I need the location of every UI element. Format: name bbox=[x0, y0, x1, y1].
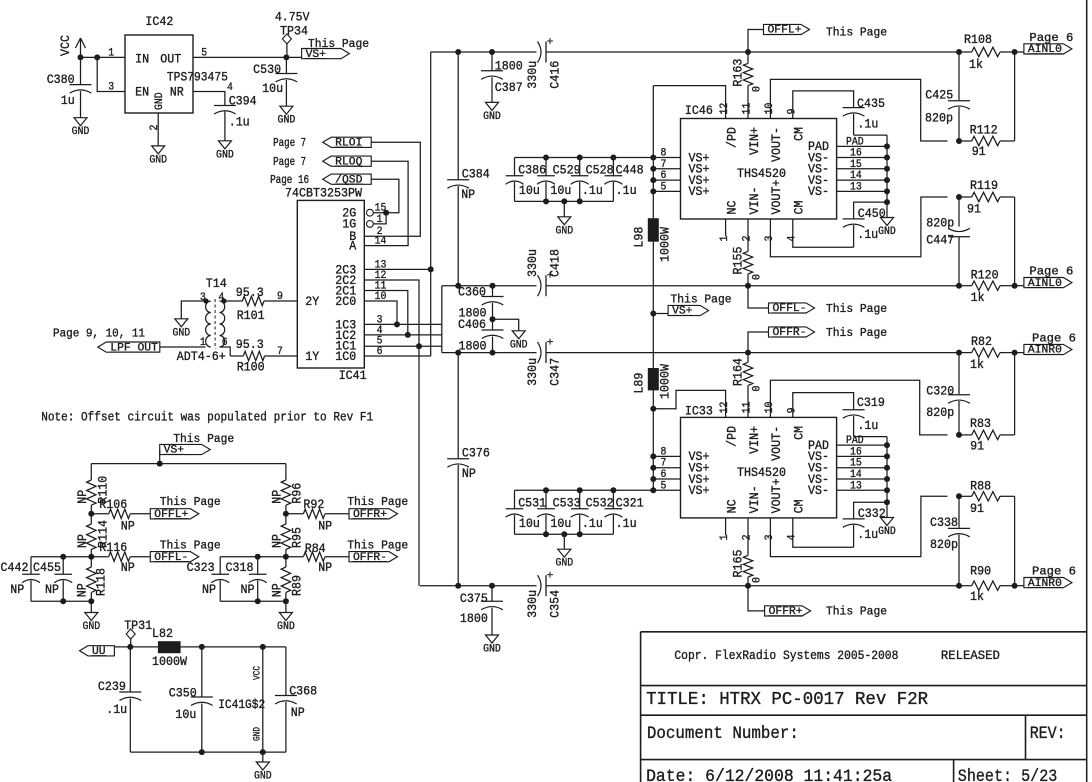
junction PAD bus 3 bbox=[884, 177, 890, 183]
svg-text:NP: NP bbox=[45, 582, 59, 597]
junction C406 rail3 bbox=[490, 350, 496, 356]
svg-text:.1u: .1u bbox=[857, 227, 878, 242]
svg-text:C350: C350 bbox=[169, 686, 197, 701]
pin number 4b bbox=[377, 325, 383, 337]
wire VS+ bus lower bbox=[652, 390, 654, 490]
capacitor C320 bbox=[926, 353, 970, 435]
wire pin5 1C1 bbox=[364, 345, 442, 347]
capacitor C455 bbox=[33, 557, 72, 602]
capacitor C416 330u bbox=[525, 38, 563, 89]
pin number IC33-11 bbox=[742, 401, 754, 413]
svg-text:Note: Offset circuit was popul: Note: Offset circuit was populated prior… bbox=[41, 410, 373, 425]
svg-text:PAD: PAD bbox=[846, 435, 864, 447]
junction bank2 C321 top bbox=[610, 487, 616, 493]
pin number T14-1 bbox=[200, 337, 206, 349]
svg-text:OFFR+: OFFR+ bbox=[353, 509, 387, 521]
svg-text:Page 6: Page 6 bbox=[1029, 265, 1073, 279]
wire IC33 pin10 route bbox=[770, 380, 947, 435]
wire R119-R120 link bbox=[1014, 197, 1016, 286]
svg-text:THS4520: THS4520 bbox=[737, 465, 786, 480]
svg-text:L98: L98 bbox=[631, 227, 646, 248]
svg-text:RLOQ: RLOQ bbox=[335, 156, 363, 168]
svg-text:VS+: VS+ bbox=[689, 483, 710, 498]
resistor R118 bbox=[74, 557, 108, 602]
svg-text:/PD: /PD bbox=[724, 127, 739, 148]
net flag VS+ top bbox=[302, 37, 369, 61]
pin number 4 IC42 bbox=[227, 82, 233, 94]
svg-text:.1u: .1u bbox=[229, 114, 250, 129]
svg-text:C406: C406 bbox=[458, 317, 486, 332]
svg-text:R118: R118 bbox=[94, 568, 109, 596]
net flag AINR0 b bbox=[1015, 565, 1076, 590]
resistor R110 bbox=[75, 464, 110, 514]
svg-text:4.75V: 4.75V bbox=[275, 9, 310, 24]
svg-text:15: 15 bbox=[375, 203, 387, 215]
junction PAD33 bus 5 bbox=[884, 499, 890, 505]
svg-text:GND: GND bbox=[253, 727, 264, 741]
svg-text:GND: GND bbox=[555, 558, 573, 570]
svg-text:.1u: .1u bbox=[582, 516, 603, 531]
svg-text:GND: GND bbox=[278, 115, 296, 127]
svg-text:VS+: VS+ bbox=[164, 445, 184, 457]
junction PAD33 bus 4 bbox=[884, 487, 890, 493]
ground below C380 bbox=[72, 118, 90, 139]
svg-text:1C0: 1C0 bbox=[335, 349, 356, 364]
junction IC33 pin5 bbox=[650, 487, 656, 493]
junction VS+ flag node bbox=[650, 311, 656, 317]
svg-text:VCC: VCC bbox=[253, 666, 264, 680]
junction PAD bus 2 bbox=[884, 166, 890, 172]
capacitor C394 bbox=[214, 94, 257, 141]
wire IC46 VS- pin 16 bbox=[837, 157, 887, 159]
wire C450 top bbox=[854, 202, 887, 218]
junction R164 rail3 bbox=[745, 350, 751, 356]
junction C318 top bbox=[255, 554, 261, 560]
svg-text:10u: 10u bbox=[550, 183, 571, 198]
resistor R164 bbox=[731, 353, 764, 418]
svg-text:R83: R83 bbox=[970, 416, 991, 431]
wire bank4 top rail bbox=[220, 556, 286, 558]
junction C350 top bbox=[199, 644, 205, 650]
svg-text:1: 1 bbox=[377, 214, 383, 226]
wire IC46 PAD bus bbox=[886, 135, 888, 217]
svg-text:.1u: .1u bbox=[582, 183, 603, 198]
ground IC46 PAD bbox=[878, 218, 896, 239]
junction TP34 node bbox=[283, 54, 289, 60]
svg-text:Copr. FlexRadio Systems 2005-2: Copr. FlexRadio Systems 2005-2008 bbox=[674, 648, 898, 663]
ground bank2 bbox=[555, 534, 573, 569]
svg-text:820p: 820p bbox=[930, 537, 958, 552]
pin number IC33-7 bbox=[661, 458, 667, 470]
svg-text:This Page: This Page bbox=[347, 539, 408, 553]
svg-text:R155: R155 bbox=[731, 247, 746, 275]
junction R118 bottom bbox=[88, 598, 94, 604]
wire mid gnd jog bbox=[493, 319, 519, 331]
svg-text:TP31: TP31 bbox=[124, 618, 152, 633]
svg-text:NP: NP bbox=[269, 490, 284, 504]
wire IC42 pin1 input bbox=[81, 56, 126, 58]
resistor R90 bbox=[959, 564, 1015, 605]
svg-text:C435: C435 bbox=[857, 96, 885, 111]
resistor R100 bbox=[230, 337, 297, 375]
net flag OFFR- bbox=[748, 326, 887, 353]
wire IC33 pin4 route bbox=[793, 518, 854, 547]
resistor R120 bbox=[959, 268, 1015, 306]
junction IC33 PD tie bbox=[650, 406, 656, 412]
svg-text:1800: 1800 bbox=[459, 339, 487, 354]
wire rail OFFR- mid bbox=[442, 352, 959, 354]
pin number 12 bbox=[375, 270, 387, 282]
power symbol VCC bbox=[58, 35, 86, 58]
svg-text:330u: 330u bbox=[525, 249, 540, 277]
junction R82 left bbox=[956, 350, 962, 356]
resistor R112 bbox=[959, 122, 1015, 159]
svg-text:330u: 330u bbox=[525, 358, 540, 386]
wire IC41 pin1 tie bbox=[373, 213, 386, 224]
title doc number bbox=[647, 724, 799, 744]
net flag VS+ offset bbox=[160, 432, 235, 464]
svg-text:C394: C394 bbox=[229, 94, 257, 109]
svg-text:16: 16 bbox=[850, 446, 862, 458]
svg-text:GND: GND bbox=[483, 111, 501, 123]
wire bank3 bottom rail bbox=[31, 600, 91, 602]
capacitor C418 330u bbox=[525, 249, 563, 296]
svg-text:NP: NP bbox=[75, 534, 90, 548]
svg-text:1k: 1k bbox=[969, 57, 983, 72]
svg-text:OFFL-: OFFL- bbox=[773, 303, 807, 315]
capacitor C528 bbox=[571, 158, 614, 202]
svg-text:NP: NP bbox=[462, 466, 476, 481]
ground below C387 bbox=[483, 102, 501, 123]
svg-text:This Page: This Page bbox=[173, 432, 234, 446]
svg-text:R90: R90 bbox=[970, 564, 991, 579]
net flag AINL0 b bbox=[1015, 265, 1074, 290]
svg-text:/PD: /PD bbox=[724, 426, 739, 447]
pin number IC46-8 bbox=[661, 148, 667, 160]
wire IC46 pin3 route bbox=[770, 197, 947, 257]
svg-text:C416: C416 bbox=[548, 61, 563, 89]
svg-text:Page 6: Page 6 bbox=[1029, 31, 1073, 45]
net flag OFFL- bbox=[748, 286, 887, 316]
svg-text:OFFL+: OFFL+ bbox=[768, 25, 802, 37]
wire IC33 VS- pin 14 bbox=[837, 478, 887, 480]
svg-text:GND: GND bbox=[254, 771, 272, 782]
junction R155 rail2 bbox=[745, 283, 751, 289]
wire C332 top bbox=[854, 502, 887, 518]
resistor R92 bbox=[286, 497, 349, 534]
net flag AINR0 a bbox=[1015, 332, 1076, 357]
inversion bubble pin15 bbox=[367, 209, 374, 216]
wire bank4 bottom rail bbox=[220, 600, 286, 602]
svg-text:95.3: 95.3 bbox=[236, 285, 264, 300]
capacitor C435 bbox=[843, 96, 887, 135]
ground IC33 PAD bbox=[878, 518, 896, 539]
svg-text:4: 4 bbox=[227, 82, 233, 94]
pin number IC46r-15 bbox=[850, 159, 862, 171]
svg-text:TP34: TP34 bbox=[280, 23, 308, 38]
svg-text:NP: NP bbox=[74, 583, 89, 597]
pin number PAD bbox=[846, 136, 864, 148]
pin number IC46-4 bbox=[786, 235, 798, 241]
wire IC42 pin3 EN bbox=[97, 57, 125, 91]
junction bank2 C532 top bbox=[577, 487, 583, 493]
pin number IC33-9 bbox=[786, 408, 798, 414]
test point TP34 bbox=[275, 9, 310, 57]
wire R88-R90 link bbox=[1014, 496, 1016, 585]
svg-text:This Page: This Page bbox=[671, 293, 732, 307]
resistor R89 bbox=[269, 557, 304, 602]
wire bus A bbox=[430, 52, 432, 356]
svg-text:GND: GND bbox=[878, 226, 896, 238]
op-amp U IC42 box bbox=[125, 14, 228, 113]
resistor R165 bbox=[731, 518, 764, 586]
pin number T14-6 bbox=[222, 337, 228, 349]
pin number IC33-1 bbox=[719, 534, 731, 540]
junction R89 bottom bbox=[283, 598, 289, 604]
wire IC33 VS- pin 13 bbox=[837, 489, 887, 491]
title sheet bbox=[958, 767, 1058, 782]
svg-text:2C0: 2C0 bbox=[335, 294, 356, 309]
capacitor C384 bbox=[447, 167, 490, 286]
pin number 15 bbox=[375, 203, 387, 215]
title released bbox=[941, 648, 1000, 663]
svg-text:1k: 1k bbox=[970, 589, 984, 604]
pin label 2C1 bbox=[335, 283, 356, 298]
svg-text:1800: 1800 bbox=[495, 59, 523, 74]
pin number 7 left bbox=[277, 346, 283, 358]
junction bank2 C533 top bbox=[543, 487, 549, 493]
title date bbox=[646, 767, 892, 782]
svg-text:AINL0: AINL0 bbox=[1028, 44, 1062, 56]
pin number T14-3 bbox=[200, 292, 206, 304]
svg-text:14: 14 bbox=[375, 236, 387, 248]
svg-text:OFFR+: OFFR+ bbox=[769, 606, 803, 618]
wire pin4 1C2 bbox=[364, 334, 442, 336]
svg-text:VOUT+: VOUT+ bbox=[769, 478, 784, 513]
svg-text:VS-: VS- bbox=[808, 483, 829, 498]
wire ladder left edge bbox=[441, 286, 443, 353]
ground below IC42 bbox=[149, 146, 167, 167]
svg-text:C347: C347 bbox=[548, 358, 563, 386]
junction C380/EN branch bbox=[94, 54, 100, 60]
svg-text:R82: R82 bbox=[971, 334, 992, 349]
wire pin3 1C3 bbox=[364, 323, 442, 325]
inductor L98 bbox=[631, 218, 672, 262]
wire bank2 top rail bbox=[515, 489, 654, 491]
resistor R95 bbox=[269, 514, 304, 557]
pin number IC46-5 bbox=[661, 181, 667, 193]
capacitor C406 bbox=[458, 317, 504, 354]
pin number 11 bbox=[375, 281, 387, 293]
svg-text:NP: NP bbox=[461, 187, 475, 202]
pin number IC46-10 bbox=[764, 103, 776, 115]
svg-text:R164: R164 bbox=[731, 358, 746, 386]
svg-text:VCC: VCC bbox=[58, 35, 73, 56]
svg-text:GND: GND bbox=[878, 526, 896, 538]
junction C455 top bbox=[60, 554, 66, 560]
wire rail OFFR+ bottom bbox=[420, 585, 959, 587]
svg-text:RLOI: RLOI bbox=[335, 138, 362, 150]
svg-text:VIN+: VIN+ bbox=[747, 127, 762, 155]
svg-text:GND: GND bbox=[483, 644, 501, 656]
net flag AINL0 a bbox=[1015, 31, 1074, 56]
junction bank2 C533 bot bbox=[543, 531, 549, 537]
junction pin13 on bus bbox=[428, 266, 434, 272]
wire RLOQ to IC41 pin14 bbox=[364, 161, 408, 245]
junction IC33 pin6 bbox=[650, 476, 656, 482]
pin number IC46-1 bbox=[719, 235, 731, 241]
capacitor C360 bbox=[458, 284, 504, 320]
pin number T14-4 bbox=[218, 292, 224, 304]
svg-text:VS+: VS+ bbox=[689, 184, 710, 199]
svg-text:C319: C319 bbox=[857, 395, 885, 410]
svg-text:R120: R120 bbox=[971, 268, 999, 283]
note text bbox=[41, 410, 373, 425]
svg-text:AINR0: AINR0 bbox=[1028, 345, 1062, 357]
svg-text:2: 2 bbox=[149, 125, 161, 131]
svg-text:16: 16 bbox=[850, 148, 862, 160]
capacitor C368 bbox=[275, 647, 317, 752]
svg-text:NC: NC bbox=[724, 499, 739, 513]
pin label 2Y bbox=[305, 294, 319, 309]
svg-text:IC41: IC41 bbox=[339, 368, 367, 383]
svg-text:C375: C375 bbox=[460, 591, 488, 606]
svg-text:R108: R108 bbox=[964, 32, 992, 47]
svg-text:This Page: This Page bbox=[308, 37, 369, 51]
wire IC46 VS- pin 14 bbox=[837, 179, 887, 181]
net flag OFFR- offset bbox=[347, 539, 408, 564]
svg-text:This Page: This Page bbox=[160, 495, 221, 509]
resistor R101 bbox=[224, 285, 297, 323]
pin number IC46-2 bbox=[742, 236, 754, 242]
wire T14 pin6 bbox=[220, 347, 231, 356]
pin number 2b bbox=[377, 226, 383, 238]
svg-text:NP: NP bbox=[10, 582, 24, 597]
svg-text:AINR0: AINR0 bbox=[1028, 578, 1062, 590]
junction R163 rail1 bbox=[745, 49, 751, 55]
wire R82-R83 link bbox=[1014, 353, 1016, 435]
wire IC42 pin5 output bbox=[193, 56, 302, 58]
svg-text:OFFL+: OFFL+ bbox=[154, 509, 188, 521]
capacitor C319 bbox=[843, 395, 887, 437]
junction R120 left bbox=[956, 283, 962, 289]
wire R112-R108 link bbox=[1014, 52, 1016, 141]
junction C360 rail2 bbox=[490, 283, 496, 289]
svg-text:C530: C530 bbox=[253, 62, 281, 77]
svg-text:820p: 820p bbox=[926, 405, 954, 420]
capacitor C376 bbox=[447, 446, 490, 586]
svg-text:13: 13 bbox=[850, 480, 862, 492]
svg-text:IC33: IC33 bbox=[685, 404, 713, 419]
svg-text:0: 0 bbox=[752, 274, 764, 280]
ground below C394 bbox=[216, 141, 234, 162]
wire IC33 PAD bus bbox=[886, 437, 888, 518]
wire pin12 2C2 bbox=[364, 280, 419, 586]
pin number IC46-11 bbox=[742, 102, 754, 114]
svg-text:820p: 820p bbox=[926, 215, 954, 230]
svg-text:C318: C318 bbox=[226, 560, 254, 575]
pin number IC46r-14 bbox=[850, 170, 862, 182]
svg-text:C380: C380 bbox=[47, 72, 75, 87]
junction R83 left bbox=[956, 432, 962, 438]
svg-text:GND: GND bbox=[172, 327, 190, 339]
capacitor C530 bbox=[253, 57, 297, 106]
junction C455 bot bbox=[60, 598, 66, 604]
svg-text:91: 91 bbox=[972, 144, 986, 159]
svg-text:Page 6: Page 6 bbox=[1032, 565, 1076, 579]
svg-text:R163: R163 bbox=[731, 59, 746, 87]
svg-text:Page 6: Page 6 bbox=[1032, 332, 1076, 346]
wire IC33 VS- pin 15 bbox=[837, 467, 887, 469]
junction R114/R116 bbox=[88, 554, 94, 560]
pin number 9 left bbox=[277, 291, 283, 303]
transformer T14 bbox=[177, 276, 227, 364]
svg-text:CM: CM bbox=[792, 499, 807, 513]
wire pin11 2C1 bbox=[364, 291, 408, 335]
svg-text:R165: R165 bbox=[731, 550, 746, 578]
svg-text:EN: EN bbox=[135, 85, 149, 100]
svg-text:R116: R116 bbox=[99, 540, 127, 555]
svg-text:GND: GND bbox=[72, 126, 90, 138]
svg-text:1k: 1k bbox=[970, 357, 984, 372]
svg-text:91: 91 bbox=[970, 438, 984, 453]
resistor R96 bbox=[269, 464, 304, 514]
ground C406 mid bbox=[510, 331, 528, 352]
pin number IC46-3 bbox=[764, 236, 776, 242]
svg-text:.1u: .1u bbox=[616, 183, 637, 198]
pin label 1C1 bbox=[335, 338, 356, 353]
svg-text:NP: NP bbox=[121, 560, 135, 575]
junction R120 right bbox=[1012, 283, 1018, 289]
net flag OFFR+ offset bbox=[347, 495, 408, 521]
svg-text:NP: NP bbox=[291, 705, 305, 720]
svg-text:T14: T14 bbox=[206, 276, 227, 291]
junction offset flag bbox=[157, 461, 163, 467]
pin label 1C2 bbox=[335, 328, 356, 343]
wire IC33 VS- pin 16 bbox=[837, 455, 887, 457]
svg-text:R106: R106 bbox=[99, 497, 127, 512]
wire L82 out bbox=[181, 646, 286, 648]
svg-text:15: 15 bbox=[850, 458, 862, 470]
resistor R119 bbox=[959, 178, 1015, 217]
pin label 1C3 bbox=[335, 317, 356, 332]
wire IC46 VS+ pin 8 bbox=[653, 157, 680, 159]
junction bank1 C448 top bbox=[610, 155, 616, 161]
wire T14 pin3 to gnd bbox=[181, 301, 206, 319]
junction R90 left bbox=[956, 583, 962, 589]
svg-text:0: 0 bbox=[752, 386, 764, 392]
junction R90 right bbox=[1012, 583, 1018, 589]
junction bank1 gnd stub bbox=[561, 198, 567, 204]
pin number 3b bbox=[377, 314, 383, 326]
svg-text:1k: 1k bbox=[971, 290, 985, 305]
pin number IC33-3 bbox=[764, 535, 776, 541]
svg-text:NP: NP bbox=[318, 560, 332, 575]
svg-text:NP: NP bbox=[269, 583, 284, 597]
inductor L89 bbox=[631, 364, 672, 399]
junction PAD bus 5 bbox=[884, 199, 890, 205]
svg-text:10u: 10u bbox=[519, 516, 540, 531]
svg-text:IC41G$2: IC41G$2 bbox=[218, 697, 265, 712]
junction busB rail3 bbox=[455, 350, 461, 356]
junction bank1 C528 top bbox=[577, 155, 583, 161]
capacitor C323 bbox=[187, 557, 230, 602]
svg-text:GND: GND bbox=[555, 225, 573, 237]
svg-text:This Page: This Page bbox=[160, 539, 221, 553]
svg-text:Sheet: 5/23: Sheet: 5/23 bbox=[958, 767, 1058, 782]
svg-text:OUT: OUT bbox=[160, 51, 181, 66]
junction R82 right bbox=[1012, 350, 1018, 356]
